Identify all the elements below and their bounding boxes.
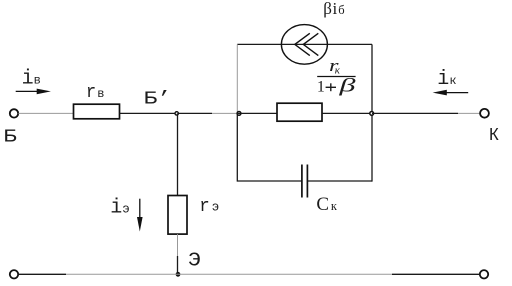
wire Б' down to rЭ: [177, 113, 179, 195]
wire grey segment to terminal К: [458, 112, 480, 114]
svg-text:К: К: [489, 125, 499, 146]
resistor R2 rЭ: [168, 196, 187, 235]
svg-text:r: r: [199, 197, 210, 217]
terminal Б (base) open circle: [10, 109, 18, 117]
terminal bottom-left open circle: [10, 270, 18, 278]
box left edge grey upper: [236, 44, 238, 113]
bottom wire black right: [392, 273, 480, 275]
svg-text:iв: iв: [22, 68, 41, 91]
svg-text:r: r: [86, 83, 96, 103]
svg-text:э: э: [212, 201, 220, 215]
current arrow iК left: [433, 90, 469, 96]
wire Б terminal to resistor rБ: [18, 112, 73, 114]
capacitor CК left plate: [301, 165, 303, 198]
wire box right to terminal К black: [372, 112, 458, 114]
svg-text:βiб: βiб: [323, 0, 345, 18]
svg-text:в: в: [97, 87, 104, 101]
current arrow iБ: [16, 89, 51, 95]
resistor R1 rБ: [74, 104, 120, 119]
resistor R3 rК/(1+β): [277, 103, 322, 121]
box bottom edge wire right of CК: [307, 180, 372, 182]
junction dot right of box: [370, 112, 374, 116]
terminal К open circle: [480, 109, 489, 118]
svg-text:1: 1: [317, 79, 325, 96]
svg-text:Б: Б: [3, 126, 17, 147]
svg-text:iк: iк: [437, 68, 456, 91]
box top edge wire: [237, 43, 372, 45]
terminal bottom-right open circle: [480, 270, 488, 278]
current source chevron 1: [295, 33, 310, 55]
current arrow iЭ down: [137, 199, 143, 232]
wire rЭ down black: [177, 256, 179, 274]
svg-text:iэ: iэ: [110, 196, 130, 219]
bottom wire black left: [18, 273, 66, 275]
node Б' junction dot: [175, 112, 178, 115]
wire resistor R3 to box right: [322, 112, 372, 114]
capacitor CК right plate: [306, 165, 308, 198]
wire rЭ down grey: [177, 234, 179, 256]
junction dot left of box: [237, 112, 241, 116]
wire grey segment to box: [212, 112, 237, 114]
svg-text:Cк: Cк: [316, 194, 337, 215]
wire Б' to box left: [177, 112, 212, 114]
node Э junction dot: [176, 273, 179, 276]
box bottom edge wire left of CК: [237, 180, 302, 182]
current source chevron 2: [303, 33, 318, 55]
svg-text:β: β: [338, 75, 357, 96]
svg-text:Э: Э: [188, 249, 201, 271]
dependent current source U1 circle: [281, 25, 327, 65]
wire rБ to node Б': [120, 112, 177, 114]
svg-text:Б’: Б’: [144, 89, 172, 110]
box right edge wire: [371, 44, 373, 181]
fraction bar: [317, 76, 355, 78]
bottom wire grey middle: [66, 273, 392, 275]
box left edge black lower: [236, 113, 238, 181]
wire box left to resistor R3: [237, 112, 277, 114]
